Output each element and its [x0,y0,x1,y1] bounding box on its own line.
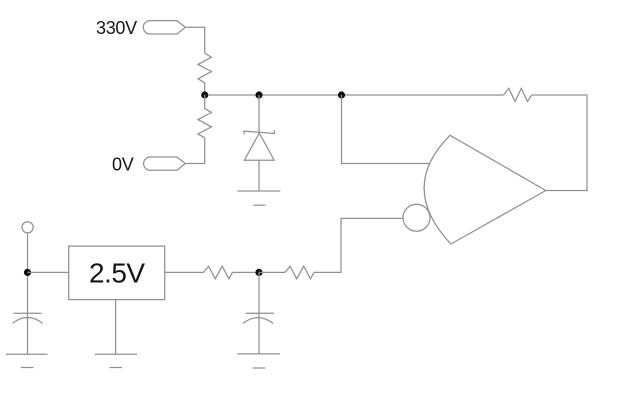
node junction [24,269,31,276]
resistor R5 [504,88,532,101]
node junction [255,269,262,276]
svg-text:330V: 330V [96,18,137,38]
wire [27,233,29,354]
capacitor C2 [243,313,274,323]
wire [259,271,285,273]
ground [237,354,280,368]
terminal 330V [143,21,185,34]
resistor R4 [285,266,314,279]
wire [233,271,260,273]
wire [314,218,403,272]
ground [6,354,48,367]
wire [185,27,205,53]
zener diode D1 [244,95,274,191]
wire [28,271,69,273]
svg-text:2.5V: 2.5V [89,258,145,289]
capacitor C1 [13,313,43,323]
wire [115,300,117,355]
resistor R1 [198,53,211,95]
wire [185,163,205,165]
ground [95,354,137,367]
wire [165,271,204,273]
input terminal [22,222,33,233]
wire bus [205,94,504,96]
voltage reference U2 [69,246,165,300]
node junction [338,91,345,98]
comparator U1 [424,135,546,244]
resistor R2 [198,95,211,164]
node junction [201,91,208,98]
wire [342,95,430,164]
resistor R3 [204,266,233,279]
terminal 0V [144,157,186,170]
wire [532,95,587,191]
ground [238,191,281,205]
inverting input bubble [403,204,430,231]
wire [258,272,260,354]
node junction [255,91,262,98]
svg-text:0V: 0V [112,155,134,175]
